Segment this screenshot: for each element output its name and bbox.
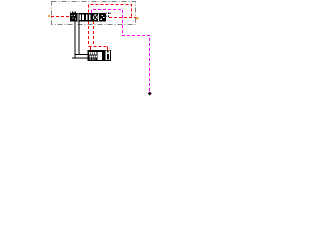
valve left lever marks	[69, 12, 72, 14]
wire red stub to component port 2	[107, 47, 109, 52]
wire magenta	[92, 10, 150, 94]
white slot	[98, 52, 103, 60]
magenta end marker	[148, 92, 152, 96]
grid white cells row 1	[89, 52, 90, 54]
pipe horizontal (double line)	[72, 57, 88, 59]
wire red top	[89, 5, 132, 18]
pipe vertical (double line)	[74, 21, 76, 58]
port marker left	[48, 15, 50, 17]
grid white cells row 2	[89, 56, 90, 58]
valve left solenoid	[70, 13, 78, 22]
wire red B (valve port down)	[93, 21, 95, 46]
right white window with marks	[106, 51, 111, 60]
group boundary box	[52, 2, 136, 25]
valve right lever marks	[105, 12, 108, 14]
valve cell 2 window	[86, 14, 90, 20]
wire red A (valve port to elbow)	[88, 21, 90, 46]
wire red stub to component port 1	[90, 47, 92, 51]
power unit component	[87, 50, 111, 61]
valve cell 3 window	[93, 14, 98, 20]
wire red left	[51, 16, 70, 18]
wire red horizontal to component	[89, 46, 108, 48]
valve white separators	[77, 14, 80, 21]
valve right solenoid	[99, 13, 106, 22]
valve body	[78, 13, 99, 22]
port marker right	[136, 17, 138, 19]
valve cell 1 window	[79, 14, 83, 20]
directional valve U1	[70, 12, 110, 22]
wire red right	[109, 17, 136, 19]
grid white cells row 3	[90, 58, 91, 59]
